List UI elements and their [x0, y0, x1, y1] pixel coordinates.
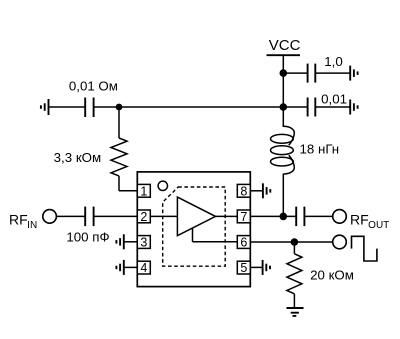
svg-text:6: 6: [240, 236, 247, 250]
svg-text:1,0: 1,0: [324, 54, 343, 69]
svg-text:1: 1: [140, 184, 147, 198]
svg-text:7: 7: [240, 210, 247, 224]
svg-text:20 кОм: 20 кОм: [310, 267, 354, 282]
svg-text:0,01 Ом: 0,01 Ом: [69, 79, 118, 94]
svg-text:3: 3: [140, 236, 147, 250]
svg-text:3,3 кОм: 3,3 кОм: [54, 150, 101, 165]
svg-text:2: 2: [140, 210, 147, 224]
svg-text:VCC: VCC: [269, 37, 301, 54]
svg-text:18 нГн: 18 нГн: [300, 142, 340, 157]
svg-text:0,01: 0,01: [321, 92, 347, 107]
svg-text:100 пФ: 100 пФ: [66, 230, 109, 245]
svg-text:RFOUT: RFOUT: [350, 211, 389, 231]
svg-text:4: 4: [140, 261, 147, 275]
svg-text:8: 8: [240, 184, 247, 198]
svg-text:RFIN: RFIN: [9, 211, 37, 231]
svg-text:5: 5: [240, 261, 247, 275]
